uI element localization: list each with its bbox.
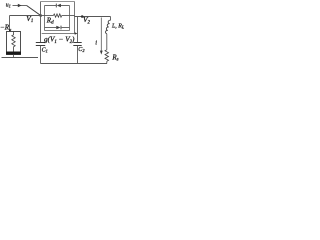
svg-text:C2: C2 <box>78 47 85 53</box>
svg-text:i: i <box>95 40 97 47</box>
svg-text:C1: C1 <box>42 48 48 54</box>
svg-text:Rd: Rd <box>46 16 54 25</box>
svg-text:−Ra: −Ra <box>0 24 12 32</box>
svg-text:g(V1 − V2): g(V1 − V2) <box>44 36 75 45</box>
current arrow g(V1-V2) head <box>75 32 78 34</box>
wire -Ra box to left rail stub <box>13 55 15 58</box>
resistor -Ra box <box>7 32 21 55</box>
wire outer right vertical <box>74 2 76 34</box>
wire C2 drop <box>77 17 79 43</box>
wire C2 to bus <box>77 46 79 64</box>
node V2 junction dot <box>81 15 84 18</box>
wire inductor branch top <box>110 17 112 21</box>
inductor L coil <box>105 20 110 34</box>
wire left drop to -Ra box <box>9 16 11 32</box>
wire inner bottom <box>45 30 70 32</box>
resistor -Ra zigzag <box>12 32 15 52</box>
diode D2 branch wire left <box>45 27 57 29</box>
diode D2 cathode bar <box>60 26 62 30</box>
resistor Rd zigzag <box>53 14 61 17</box>
node V1 junction dot <box>39 14 42 17</box>
resistor -Ra thick bottom bar <box>6 52 21 55</box>
diode D2 branch wire right <box>62 27 70 29</box>
wire diagonal into node V1 <box>27 6 41 16</box>
current i arrow shaft <box>100 18 102 52</box>
diode D1 cathode bar <box>55 4 57 8</box>
wire V1 vertical rail <box>40 2 42 43</box>
current arrow g(V1-V2) shaft <box>42 33 75 35</box>
wire C1 to bus <box>40 46 42 64</box>
wire inner left vertical <box>44 6 46 31</box>
capacitor C1 bottom plate <box>36 45 45 47</box>
diode D2 triangle pointing right <box>56 26 60 30</box>
wire bottom bus <box>41 63 108 65</box>
diode D1 branch wire right <box>61 5 70 7</box>
current i arrowhead <box>100 51 103 55</box>
svg-text:L, RL: L, RL <box>111 24 124 30</box>
wire inductor to Rs <box>106 34 108 50</box>
svg-text:u1: u1 <box>6 3 11 9</box>
capacitor C1 top plate <box>36 42 45 44</box>
wire jog at outer right <box>74 16 76 17</box>
wire outer top <box>41 1 75 3</box>
wire V2 horizontal <box>75 16 111 18</box>
wire V1 left horizontal <box>10 15 41 17</box>
wire inner right vertical <box>69 6 71 31</box>
capacitor C2 bottom plate <box>73 45 81 47</box>
u1 arrowhead <box>18 4 22 8</box>
svg-text:Rs: Rs <box>111 53 118 62</box>
wire u1 lead <box>13 5 27 7</box>
resistor Rs zigzag <box>105 50 109 62</box>
wire Rs to bus <box>106 61 108 63</box>
diode D1 branch wire left <box>45 5 57 7</box>
wire left ground rail <box>2 57 39 59</box>
diode D1 triangle pointing left <box>57 4 61 8</box>
resistor Rd main wire left segment <box>41 15 54 17</box>
wire Rd to V2 <box>62 15 75 17</box>
capacitor C2 top plate <box>73 42 81 44</box>
